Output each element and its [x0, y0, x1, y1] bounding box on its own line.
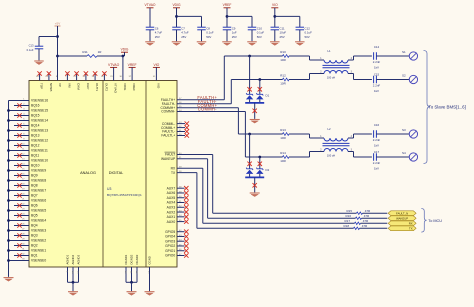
wire no-connect stub GPIO2	[177, 245, 185, 247]
ground under C7	[172, 42, 182, 46]
ground under D1	[250, 120, 260, 124]
wire no-connect stub BQ13	[14, 135, 29, 137]
no-ERC X AUX6	[184, 191, 188, 195]
wire VREF down	[226, 8, 228, 27]
node junction D1 right	[258, 78, 261, 81]
svg-text:38: 38	[101, 76, 104, 78]
svg-text:R10: R10	[280, 50, 286, 54]
wire D2 left riser	[249, 134, 251, 169]
no-ERC X OUT2	[102, 71, 106, 75]
wire line B (FAULTH-)	[231, 79, 282, 81]
svg-text:VDIG: VDIG	[172, 3, 180, 7]
svg-text:2.2nF: 2.2nF	[373, 138, 381, 142]
svg-text:BQ9: BQ9	[31, 174, 38, 178]
wire AGND stem	[72, 282, 74, 291]
wire pin VSENSE1	[9, 250, 30, 252]
svg-text:CHM: CHM	[77, 83, 81, 90]
svg-text:BQ8: BQ8	[31, 184, 38, 188]
wire no-connect stub AUX1	[177, 216, 185, 218]
svg-text:GPIO4: GPIO4	[165, 235, 175, 239]
svg-text:AGND3: AGND3	[77, 254, 81, 264]
capacitor C14	[373, 52, 375, 60]
brace To Slave BMS	[424, 51, 431, 164]
svg-text:GPIO3: GPIO3	[165, 239, 175, 243]
svg-text:VIO: VIO	[157, 83, 161, 89]
svg-text:R12: R12	[280, 73, 286, 77]
svg-text:AUX7: AUX7	[167, 186, 176, 190]
no-ERC X GPIO4	[184, 234, 188, 238]
no-ERC X BQ15	[17, 113, 21, 117]
svg-text:R16: R16	[345, 214, 351, 218]
svg-text:25V: 25V	[232, 35, 237, 39]
svg-text:S4: S4	[402, 151, 406, 155]
svg-text:R18: R18	[343, 224, 349, 228]
svg-text:37: 37	[129, 76, 132, 78]
svg-text:C16: C16	[374, 123, 380, 127]
svg-text:GPIO1: GPIO1	[165, 249, 175, 253]
node junction VDIG cap link	[175, 15, 178, 18]
svg-text:VSENSE16: VSENSE16	[31, 99, 48, 103]
wire FAULT net	[177, 154, 213, 156]
resistor R14	[283, 156, 290, 159]
wire no-connect stub BQ7	[14, 195, 29, 197]
svg-text:RX: RX	[409, 221, 413, 225]
wire no-connect stub BQ5	[14, 215, 29, 217]
capacitor C8	[197, 26, 206, 28]
wire D1 right riser	[259, 80, 261, 95]
svg-text:CHP: CHP	[86, 83, 90, 89]
wire stub AGND3	[78, 267, 80, 282]
no-ERC X OUT1	[93, 71, 97, 75]
wire stub DGND2	[131, 267, 133, 282]
svg-text:AUX2: AUX2	[167, 210, 176, 214]
svg-text:VSENSE4: VSENSE4	[31, 219, 46, 223]
wire no-connect stub AUX0	[177, 221, 185, 223]
node junction DGND	[130, 281, 133, 284]
svg-text:WAKEUP: WAKEUP	[161, 157, 176, 161]
wire pin VSENSE0	[9, 260, 30, 262]
wire RX net	[177, 167, 203, 169]
wire line A2 (COMMH+)	[238, 133, 282, 135]
capacitor C13	[38, 37, 40, 47]
svg-text:VSENSE2: VSENSE2	[31, 239, 46, 243]
wire pin VSENSE14	[9, 120, 30, 122]
svg-text:10R: 10R	[280, 58, 286, 62]
no-ERC X COMML-	[185, 121, 189, 125]
svg-text:50V: 50V	[257, 35, 262, 39]
wire pin VSENSE9	[9, 170, 30, 172]
no-ERC X BQ1	[17, 253, 21, 257]
capacitor C16	[373, 130, 375, 138]
svg-text:30: 30	[119, 76, 122, 78]
svg-text:VSENSE3: VSENSE3	[31, 229, 46, 233]
resistor R17	[355, 222, 361, 224]
wire D2 right riser	[259, 157, 261, 169]
node junction VREF cap link	[226, 15, 229, 18]
ground under C12	[295, 42, 305, 46]
svg-text:VDIG: VDIG	[121, 48, 129, 52]
wire D1 stem	[254, 103, 256, 119]
svg-text:VSENSE13: VSENSE13	[31, 129, 48, 133]
node junction AGND	[72, 281, 75, 284]
wire no-connect stub BQ1	[14, 255, 29, 257]
svg-text:1kV: 1kV	[374, 143, 379, 147]
wire no-connect stub BQ16	[14, 105, 29, 107]
no-ERC X BQ8	[17, 183, 21, 187]
svg-text:1kV: 1kV	[374, 65, 379, 69]
ground AGND	[68, 292, 78, 296]
svg-text:47R: 47R	[362, 224, 368, 228]
no-ERC X FAULTL-	[185, 129, 189, 133]
svg-text:S2: S2	[402, 73, 406, 77]
wire no-connect stub BQ11	[14, 155, 29, 157]
no-ERC X BQ3	[17, 233, 21, 237]
svg-text:COMMH-: COMMH-	[161, 110, 175, 114]
resistor R15	[357, 212, 363, 214]
no-ERC X GPIO0	[184, 253, 188, 257]
node junction D2 left	[248, 133, 251, 136]
svg-text:BQ10: BQ10	[31, 164, 40, 168]
no-ERC X COMML+	[185, 125, 189, 129]
wire no-connect stub AUX6	[177, 192, 185, 194]
wire DGND join	[126, 281, 137, 283]
no-ERC X D2 left	[247, 162, 251, 166]
svg-text:AUX4: AUX4	[167, 201, 176, 205]
svg-text:VSENSE15: VSENSE15	[31, 109, 48, 113]
capacitor C12	[296, 26, 305, 28]
wire no-connect stub FAULTL-	[177, 131, 185, 133]
IC U3 BQ76PL455ATPFCRQ1 body	[29, 81, 177, 268]
wire pin VSENSE6	[9, 200, 30, 202]
svg-text:VDIG: VDIG	[123, 83, 127, 91]
diode D2	[246, 168, 253, 170]
no-ERC X BQ12	[17, 143, 21, 147]
wire no-connect stub BQ10	[14, 165, 29, 167]
wire no-connect stub AUX5	[177, 197, 185, 199]
wire no-connect stub OUT2	[103, 73, 105, 81]
svg-text:VTVAO: VTVAO	[108, 63, 120, 67]
wire D1 left riser	[249, 56, 251, 95]
resistor R12	[283, 78, 290, 81]
wire no-connect stub GPIO0	[177, 255, 185, 257]
wire COMMH+	[177, 107, 238, 109]
resistor R13	[283, 133, 290, 136]
svg-text:47R: 47R	[364, 214, 370, 218]
svg-text:DIGITAL: DIGITAL	[109, 171, 124, 175]
svg-text:DGND1: DGND1	[124, 254, 128, 264]
svg-text:7: 7	[65, 76, 67, 78]
svg-text:R15: R15	[346, 209, 352, 213]
ground DGND	[127, 292, 137, 296]
wire no-connect stub BQ6	[14, 205, 29, 207]
node left VSENSE bus	[8, 101, 10, 277]
wire no-connect stub BQ8	[14, 185, 29, 187]
svg-text:L2: L2	[328, 127, 332, 131]
svg-text:36: 36	[92, 76, 95, 78]
svg-text:BQ5: BQ5	[31, 214, 38, 218]
svg-text:25V: 25V	[181, 35, 186, 39]
wire no-connect stub GPIO1	[177, 250, 185, 252]
wire VIO	[155, 67, 157, 80]
port RX	[388, 221, 416, 226]
wire AGND join	[68, 281, 79, 283]
svg-text:BQ15: BQ15	[31, 114, 40, 118]
no-ERC X BQ6	[17, 203, 21, 207]
wire CGND stem	[149, 267, 151, 291]
svg-text:VSENSE0: VSENSE0	[31, 259, 46, 263]
wire pin VSENSE3	[9, 230, 30, 232]
svg-text:C15: C15	[374, 73, 380, 77]
wire pin VSENSE16	[9, 100, 30, 102]
svg-text:FAULTL+: FAULTL+	[161, 134, 175, 138]
node junction VDIG	[122, 55, 125, 58]
wire no-connect stub BQ9	[14, 175, 29, 177]
no-ERC X BQ14	[17, 123, 21, 127]
ground under C8	[197, 42, 207, 46]
svg-text:33: 33	[73, 76, 76, 78]
wire no-connect stub GPIO5	[177, 231, 185, 233]
svg-text:VSENSE9: VSENSE9	[31, 169, 46, 173]
svg-text:FAULT_N: FAULT_N	[396, 211, 408, 215]
svg-text:VTVAO: VTVAO	[145, 3, 156, 7]
wire VTVAO	[113, 67, 115, 80]
svg-text:AUX1: AUX1	[167, 215, 176, 219]
svg-text:VM: VM	[68, 83, 72, 88]
svg-text:BQ14: BQ14	[31, 124, 40, 128]
wire stub AGND1	[67, 267, 69, 282]
svg-text:OUT1: OUT1	[95, 83, 99, 91]
wire pin VSENSE10	[9, 160, 30, 162]
svg-text:COMMH-: COMMH-	[198, 107, 217, 112]
wire link to C12	[275, 15, 300, 17]
wire VDIG down	[176, 8, 178, 27]
svg-text:AUX6: AUX6	[167, 191, 176, 195]
ground under D2	[250, 193, 260, 197]
svg-text:CGND: CGND	[148, 256, 152, 264]
no-ERC X CHP	[84, 71, 88, 75]
no-ERC X BQ9	[17, 173, 21, 177]
ground bus GND	[8, 276, 10, 277]
wire FAULTH+	[177, 99, 224, 101]
no-ERC X GPIO3	[184, 239, 188, 243]
no-ERC X D2 right	[258, 162, 262, 166]
ground under C9	[222, 42, 232, 46]
wire no-connect stub BQ4	[14, 225, 29, 227]
wire pin VSENSE2	[9, 240, 30, 242]
svg-text:VIO: VIO	[272, 3, 278, 7]
no-ERC X AUX1	[184, 215, 188, 219]
svg-text:NPNB: NPNB	[49, 83, 53, 91]
no-ERC X AUX4	[184, 200, 188, 204]
svg-text:29: 29	[110, 76, 113, 78]
node junction C13 branch	[56, 35, 59, 38]
svg-text:BQ4: BQ4	[31, 224, 38, 228]
svg-text:50V: 50V	[305, 35, 310, 39]
svg-text:BQ76PL455ATPFCRQ1: BQ76PL455ATPFCRQ1	[107, 193, 142, 197]
svg-text:DGND3: DGND3	[135, 254, 139, 264]
svg-text:2.2nF: 2.2nF	[373, 60, 381, 64]
svg-text:BQ12: BQ12	[31, 144, 40, 148]
wire VTVAO	[149, 8, 151, 27]
wire no-connect stub OUT1	[94, 73, 96, 81]
svg-text:41: 41	[153, 76, 156, 78]
ground under C6	[145, 42, 155, 46]
svg-text:R11: R11	[82, 50, 88, 54]
svg-text:AUX0: AUX0	[167, 220, 176, 224]
resistor R11	[58, 55, 88, 57]
svg-text:VSENSE1: VSENSE1	[31, 249, 46, 253]
wire pin VSENSE12	[9, 140, 30, 142]
no-ERC X D1 stem	[253, 109, 257, 113]
no-ERC X D1 right	[258, 87, 262, 91]
no-ERC X VM	[65, 71, 69, 75]
svg-text:AUX3: AUX3	[167, 205, 176, 209]
no-ERC X BQ11	[17, 153, 21, 157]
wire pin VSENSE8	[9, 180, 30, 182]
svg-text:10R: 10R	[280, 81, 286, 85]
wire pin VSENSE5	[9, 210, 30, 212]
svg-text:25V: 25V	[155, 35, 160, 39]
no-ERC X NPNB	[47, 71, 51, 75]
svg-text:1kV: 1kV	[374, 166, 379, 170]
svg-text:BQ6: BQ6	[31, 204, 38, 208]
wire pin VSENSE7	[9, 190, 30, 192]
wire no-connect stub TOP	[39, 73, 41, 81]
wire pin VSENSE13	[9, 130, 30, 132]
svg-text:2.2nF: 2.2nF	[373, 161, 381, 165]
no-ERC X CHM	[74, 71, 78, 75]
svg-text:VIO: VIO	[153, 63, 159, 67]
wire no-connect stub FAULTL+	[177, 135, 185, 137]
wire no-connect stub AUX4	[177, 202, 185, 204]
svg-text:VSENSE5: VSENSE5	[31, 209, 46, 213]
no-ERC X TOP	[37, 71, 41, 75]
svg-text:D2: D2	[266, 168, 270, 172]
no-ERC X GPIO1	[184, 249, 188, 253]
svg-text:VREF: VREF	[128, 63, 137, 67]
no-ERC X GPIO5	[184, 230, 188, 234]
svg-text:VREF: VREF	[132, 83, 136, 91]
resistor R18	[354, 227, 360, 229]
wire line A (FAULTH+)	[224, 55, 282, 57]
wire no-connect stub CHM	[76, 73, 78, 81]
svg-text:R14: R14	[280, 151, 286, 155]
no-ERC X BQ7	[17, 193, 21, 197]
svg-text:BQ2: BQ2	[31, 244, 38, 248]
ground under C11	[270, 42, 280, 46]
wire no-connect stub GPIO3	[177, 240, 185, 242]
svg-text:25V: 25V	[280, 35, 285, 39]
svg-text:VSENSE8: VSENSE8	[31, 179, 46, 183]
svg-text:L1: L1	[328, 49, 332, 53]
svg-text:VSENSE12: VSENSE12	[31, 139, 48, 143]
svg-text:10R: 10R	[280, 136, 286, 140]
svg-text:GPIO5: GPIO5	[165, 230, 175, 234]
svg-text:VP: VP	[58, 83, 62, 87]
svg-text:VSENSE6: VSENSE6	[31, 199, 46, 203]
svg-text:U3: U3	[107, 187, 111, 191]
no-ERC X BQ13	[17, 133, 21, 137]
ground under C10	[247, 42, 257, 46]
no-ERC X AUX5	[184, 196, 188, 200]
svg-text:34: 34	[82, 76, 85, 78]
wire line B2 (COMMH-)	[245, 156, 282, 158]
svg-text:RX: RX	[171, 166, 176, 170]
wire stub DGND3	[136, 267, 138, 282]
node junction D2 right	[258, 156, 261, 159]
wire no-connect stub NPNB	[48, 73, 50, 81]
no-ERC X FAULTL+	[185, 133, 189, 137]
svg-text:AUX5: AUX5	[167, 196, 176, 200]
wire FAULTH-	[177, 103, 231, 105]
wire no-connect stub VM	[66, 73, 68, 81]
svg-text:0.1uF: 0.1uF	[27, 48, 34, 52]
wire link to C8	[177, 15, 202, 17]
wire WAKEUP net	[177, 158, 208, 160]
wire no-connect stub CHP	[85, 73, 87, 81]
no-ERC X BQ16	[17, 103, 21, 107]
capacitor C15	[373, 76, 375, 84]
wire VDIG to pin	[122, 56, 124, 81]
wire no-connect stub AUX2	[177, 211, 185, 213]
transformer L2	[309, 134, 311, 138]
svg-text:C14: C14	[374, 45, 380, 49]
capacitor C6	[146, 26, 155, 28]
wire no-connect stub BQ12	[14, 145, 29, 147]
port FAULT_N	[388, 211, 416, 216]
svg-text:VTVAO: VTVAO	[114, 83, 118, 94]
svg-text:D1: D1	[266, 94, 270, 98]
svg-text:TOP: TOP	[40, 83, 44, 89]
svg-text:100 uH: 100 uH	[327, 76, 335, 80]
capacitor C10	[248, 26, 257, 28]
svg-text:WAKEUP: WAKEUP	[396, 216, 408, 220]
svg-text:+5V: +5V	[55, 22, 60, 26]
svg-text:To MCU: To MCU	[428, 219, 442, 223]
no-ERC X BQ5	[17, 213, 21, 217]
svg-text:64: 64	[36, 76, 39, 78]
port WAKEUP	[388, 216, 416, 221]
svg-text:BQ1: BQ1	[31, 254, 38, 258]
no-ERC X BQ2	[17, 243, 21, 247]
capacitor C11	[271, 26, 280, 28]
wire no-connect stub AUX7	[177, 187, 185, 189]
svg-text:BQ11: BQ11	[31, 154, 39, 158]
capacitor C9	[223, 26, 232, 28]
ground CGND	[145, 292, 155, 296]
wire pin VSENSE15	[9, 110, 30, 112]
svg-text:1kV: 1kV	[374, 89, 379, 93]
no-ERC X AUX3	[184, 205, 188, 209]
node junction VIO cap link	[273, 15, 276, 18]
wire no-connect stub BQ2	[14, 245, 29, 247]
svg-text:BQ16: BQ16	[31, 104, 40, 108]
wire link to C10	[227, 15, 252, 17]
svg-text:C13: C13	[29, 44, 34, 48]
wire pin VSENSE4	[9, 220, 30, 222]
no-ERC X AUX2	[184, 210, 188, 214]
no-ERC X BQ10	[17, 163, 21, 167]
svg-text:GPIO2: GPIO2	[165, 244, 175, 248]
wire no-connect stub COMML+	[177, 127, 185, 129]
svg-text:S3: S3	[402, 128, 406, 132]
wire DGND stem	[131, 282, 133, 291]
resistor R16	[356, 217, 362, 219]
no-ERC X AUX7	[184, 186, 188, 190]
svg-text:63: 63	[45, 76, 48, 78]
svg-text:To Slave BMS[1..6]: To Slave BMS[1..6]	[429, 105, 466, 110]
svg-text:VSENSE7: VSENSE7	[31, 189, 46, 193]
